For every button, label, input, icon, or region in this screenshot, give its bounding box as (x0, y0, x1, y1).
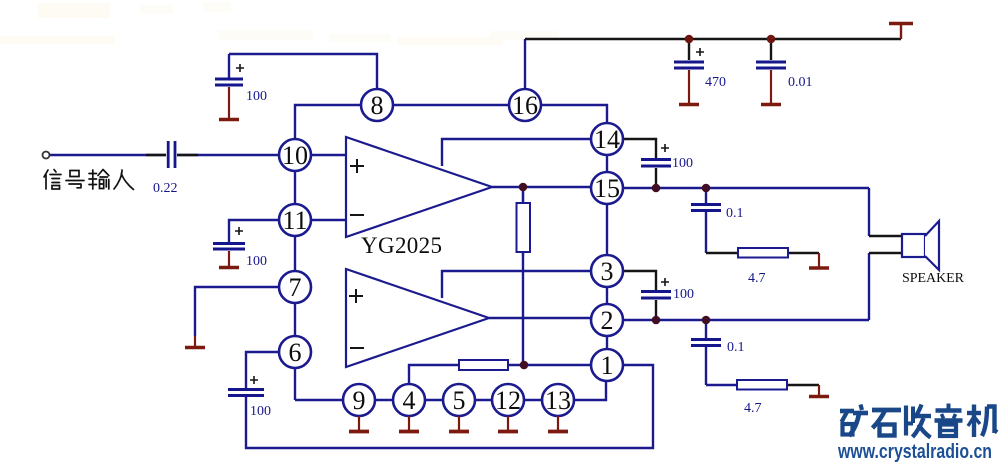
wire pin 11 to op-amp U1 - input (311, 219, 346, 221)
pin 15 (591, 172, 623, 204)
svg-text:3: 3 (601, 257, 614, 286)
ground R3 (809, 385, 829, 397)
wire pin 16 to pin 14 (541, 105, 607, 123)
svg-text:0.1: 0.1 (726, 206, 744, 221)
svg-text:100: 100 (250, 404, 271, 419)
svg-text:4.7: 4.7 (748, 271, 766, 286)
svg-text:0.22: 0.22 (153, 181, 178, 196)
wire pin 11 to C3 (229, 220, 279, 242)
svg-text:0.1: 0.1 (727, 340, 745, 355)
ground pin 9 (349, 416, 369, 432)
wire R2 right lead (788, 252, 819, 254)
wire C1 to pin 10 (177, 154, 279, 156)
pin 12 (492, 384, 524, 416)
svg-text:10: 10 (282, 141, 308, 170)
pin 3 (591, 255, 623, 287)
input terminal (43, 152, 50, 159)
wire pin 7 to pin 6 (294, 303, 296, 336)
junction C8 pin2 (652, 316, 661, 325)
wire pin 8 left to pin 10 top (295, 105, 361, 139)
wire C4 bottom feedback to pin 1 (246, 365, 653, 448)
wire pin row to pin 9 (295, 399, 343, 401)
wire speaker top lead (869, 235, 902, 237)
ground pin 5 (449, 416, 469, 432)
wire op-amp U2 output to pin 2 (489, 317, 591, 319)
wire C8 bottom lead (655, 300, 657, 318)
wire pin 3 to pin 2 (606, 287, 608, 304)
wire op-amp U1 output to pin 15 (492, 186, 591, 188)
wire pin 4 to pin 5 (425, 399, 443, 401)
pin 8 (361, 89, 393, 121)
ground pin7 (185, 336, 205, 348)
wire pin 8 to pin 16 (393, 104, 509, 106)
label 信号输入 (44, 170, 134, 190)
junction C6 pin15 (652, 184, 661, 193)
pin 6 (279, 336, 311, 368)
op-amp U1 (346, 137, 492, 237)
wire C9 to R3 (706, 384, 737, 386)
capacitor C3 100uF (213, 227, 245, 268)
wire C7 to R2 (706, 252, 738, 254)
supply terminal (889, 24, 913, 40)
svg-text:14: 14 (594, 125, 620, 154)
capacitor C4 100uF (228, 376, 264, 397)
svg-text:8: 8 (371, 91, 384, 120)
wire speaker bottom lead (869, 252, 902, 254)
wire C10 top lead (770, 39, 772, 60)
wire pin 10 to pin 11 (294, 171, 296, 204)
junction U1 output (519, 183, 528, 192)
resistor R3 4.7 (737, 380, 787, 390)
pin 1 (591, 349, 623, 381)
wire C7 bottom lead (705, 212, 707, 253)
svg-text:100: 100 (673, 287, 694, 302)
wire pin 8 top to C2 (229, 54, 377, 89)
resistor R2 4.7 (738, 248, 788, 258)
capacitor C6 100uF (641, 144, 671, 168)
capacitor C2 100uF (215, 64, 244, 120)
wire pin 13 to pin 1 bottom (574, 381, 606, 400)
wire C7 top lead (705, 188, 707, 203)
pin 14 (591, 123, 623, 155)
svg-text:4: 4 (403, 386, 416, 415)
wire pin 16 up to supply rail (524, 39, 526, 89)
wire pin 3 left to op-amp U2 top (442, 271, 591, 298)
ground R2 (809, 253, 829, 268)
resistor R1 (517, 187, 531, 256)
capacitor C10 0.01uF (756, 61, 786, 105)
pin 11 (279, 204, 311, 236)
svg-text:16: 16 (512, 91, 538, 120)
wire pin 4 riser to R4 (409, 365, 459, 384)
junction rail C10 (767, 35, 776, 44)
wire pin 6 down to pin row (294, 368, 296, 400)
capacitor C9 0.1uF (691, 338, 721, 347)
wire down to speaker top (868, 188, 870, 236)
pin 16 (509, 89, 541, 121)
speaker (902, 221, 939, 270)
wire pin 9 to pin 4 (375, 399, 393, 401)
ground pin 13 (548, 416, 568, 432)
wire speaker bottom down to pin 2 wire (868, 253, 870, 320)
wire pin 3 right to C8 (623, 271, 656, 290)
junction rail C5 (685, 35, 694, 44)
capacitor C8 100uF (641, 278, 671, 300)
junction C7 pin15 (702, 184, 711, 193)
wire R1 top lead (522, 187, 524, 203)
wire C6 bottom lead (655, 168, 657, 186)
svg-text:2: 2 (601, 306, 614, 335)
op-amp U2 (346, 269, 489, 367)
wire pin 7 left to ground (195, 287, 279, 336)
svg-text:5: 5 (453, 386, 466, 415)
svg-text:12: 12 (495, 386, 521, 415)
wire input to C1 (50, 154, 166, 156)
svg-text:100: 100 (246, 89, 267, 104)
capacitor C1 0.22uF (167, 141, 177, 168)
pin 4 (393, 384, 425, 416)
pin 13 (542, 384, 574, 416)
svg-text:1: 1 (601, 351, 614, 380)
svg-text:7: 7 (289, 273, 302, 302)
wire pin 2 to pin 1 (606, 336, 608, 349)
svg-text:100: 100 (246, 254, 267, 269)
wire pin 6 left to C4 (246, 352, 279, 388)
wire C9 top lead (705, 320, 707, 338)
wire pin 5 to pin 12 (475, 399, 492, 401)
svg-text:100: 100 (672, 156, 693, 171)
wire pin 14 right to C6 (623, 139, 656, 158)
wire pin 15 to pin 3 (606, 204, 608, 255)
svg-text:YG2025: YG2025 (361, 233, 442, 258)
junction C9 pin2 (702, 316, 711, 325)
svg-text:4.7: 4.7 (744, 401, 762, 416)
wire supply rail (525, 38, 901, 40)
ground pin 12 (498, 416, 518, 432)
capacitor C7 0.1uF (691, 203, 721, 212)
pin 5 (443, 384, 475, 416)
svg-text:13: 13 (545, 386, 571, 415)
wire pin 12 to pin 13 (524, 399, 542, 401)
svg-text:11: 11 (282, 206, 307, 235)
pin 7 (279, 271, 311, 303)
wire C9 bottom lead (705, 347, 707, 385)
svg-text:0.01: 0.01 (788, 75, 813, 90)
junction R4 node (520, 361, 529, 370)
wire input black segment left of C1 (146, 154, 166, 156)
svg-text:6: 6 (289, 338, 302, 367)
wire R4 to pin 1 (508, 364, 591, 366)
capacitor C5 470uF (674, 48, 704, 105)
wire C5 top lead (688, 39, 690, 60)
resistor R4 (459, 360, 508, 370)
pin 9 (343, 384, 375, 416)
wire op-amp U1 top to pin 14 (442, 139, 591, 166)
wire R3 right lead (787, 384, 819, 386)
svg-text:SPEAKER: SPEAKER (902, 271, 965, 286)
wire R1 bottom lead to node B (522, 252, 524, 365)
svg-text:470: 470 (705, 75, 726, 90)
wire pin 11 to pin 7 (294, 236, 296, 271)
wire pin 15 right to speaker branch (623, 187, 869, 189)
ground pin 4 (399, 416, 419, 432)
wire pin 10 to op-amp U1 + input (311, 154, 346, 156)
svg-text:15: 15 (594, 174, 620, 203)
svg-text:www.crystalradio.cn: www.crystalradio.cn (837, 441, 992, 463)
svg-text:9: 9 (353, 386, 366, 415)
pin 10 (279, 139, 311, 171)
watermark logo 矿石收音机 (840, 404, 997, 438)
wire pin 14 to pin 15 (606, 155, 608, 172)
wire pin 2 right to speaker branch (623, 319, 869, 321)
pin 2 (591, 304, 623, 336)
wire input black segment right of C1 (177, 154, 198, 156)
